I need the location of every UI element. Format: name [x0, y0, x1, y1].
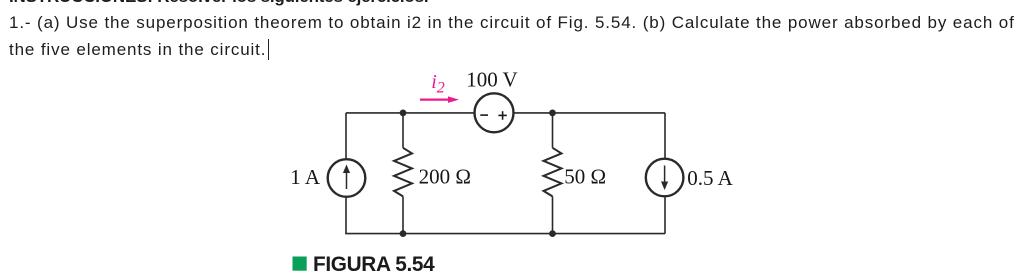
svg-text:FIGURA 5.54: FIGURA 5.54	[313, 253, 435, 276]
svg-text:50 Ω: 50 Ω	[564, 164, 606, 188]
svg-text:2: 2	[437, 80, 445, 97]
svg-text:200 Ω: 200 Ω	[419, 164, 471, 188]
svg-text:0.5 A: 0.5 A	[687, 166, 733, 190]
svg-text:1 A: 1 A	[290, 165, 321, 189]
svg-text:100 V: 100 V	[466, 68, 518, 92]
